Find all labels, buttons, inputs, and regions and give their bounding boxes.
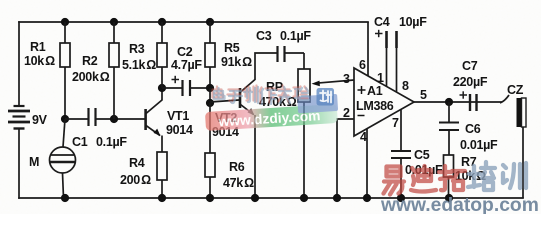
transistor VT1 9014	[146, 100, 162, 136]
svg-text:C1: C1	[72, 135, 88, 149]
node VT1 collector junction	[158, 84, 166, 92]
capacitor C1 0.1uF	[87, 108, 89, 126]
op-amp A1 LM386	[354, 68, 414, 136]
pin 7 wire	[400, 109, 402, 150]
wire VT1 collector up	[161, 88, 163, 101]
svg-text:VT1: VT1	[167, 109, 189, 123]
wire C1 left	[65, 118, 88, 120]
svg-text:8: 8	[402, 79, 409, 93]
svg-text:R1: R1	[30, 40, 46, 54]
potentiometer RP 470k	[303, 53, 305, 69]
svg-text:9V: 9V	[32, 113, 48, 127]
capacitor C4 10uF	[385, 31, 388, 48]
watermark dzdiy slogan chars	[213, 86, 310, 105]
wire mic top lead	[63, 119, 65, 147]
pin 4 wire	[366, 129, 368, 198]
wire VT2 emitter down	[254, 115, 256, 198]
microphone M	[50, 147, 76, 173]
node top rail junction R3	[158, 18, 166, 26]
svg-text:LM386: LM386	[356, 99, 394, 113]
wire left rail upper	[18, 22, 20, 105]
node mic ground junction	[61, 194, 69, 202]
node VT2 base junction	[206, 99, 214, 107]
node C1 left junction	[61, 115, 69, 123]
resistor R1	[60, 43, 70, 67]
wire R1 top lead	[64, 22, 66, 43]
wire output hook	[500, 95, 509, 103]
svg-text:M: M	[29, 155, 39, 169]
svg-text:C5: C5	[414, 148, 430, 162]
wire CZ to ground	[522, 127, 524, 198]
svg-text:91k Ω: 91k Ω	[221, 55, 252, 69]
wire left rail lower	[18, 129, 20, 198]
svg-text:2: 2	[343, 106, 350, 120]
svg-text:A1: A1	[367, 84, 383, 98]
svg-text:10k Ω: 10k Ω	[24, 54, 55, 68]
svg-text:9014: 9014	[166, 123, 193, 137]
svg-text:C2: C2	[177, 45, 193, 59]
wire VT2 collector up	[255, 53, 277, 80]
svg-text:5.1k Ω: 5.1k Ω	[122, 58, 156, 72]
wire R5-R6 divider	[209, 88, 211, 103]
capacitor C5 0.01uF	[391, 150, 411, 152]
pin 2 wire	[337, 119, 354, 198]
svg-text:R2: R2	[82, 54, 98, 68]
node top rail junction R5	[206, 18, 214, 26]
node top rail junction R1	[61, 18, 69, 26]
resistor R2	[113, 22, 115, 43]
wire mic bottom lead	[63, 173, 64, 198]
svg-text:R5: R5	[224, 41, 240, 55]
pin 1	[386, 48, 388, 86]
svg-text:R4: R4	[129, 156, 145, 170]
svg-text:47k Ω: 47k Ω	[223, 176, 254, 190]
svg-text:0.1µF: 0.1µF	[280, 29, 311, 43]
svg-text:200k Ω: 200k Ω	[72, 70, 110, 84]
svg-text:C7: C7	[462, 59, 478, 73]
svg-text:C3: C3	[256, 29, 272, 43]
svg-text:7: 7	[392, 116, 399, 130]
svg-text:C6: C6	[465, 122, 481, 136]
resistor R7	[444, 155, 454, 177]
capacitor C3 0.1uF	[276, 46, 278, 62]
battery B 9V	[8, 106, 30, 129]
svg-text:4.7µF: 4.7µF	[171, 58, 202, 72]
svg-text:C4: C4	[374, 15, 390, 29]
pin 8	[396, 48, 398, 92]
resistor R6	[209, 103, 211, 153]
svg-text:5: 5	[420, 88, 427, 102]
wire VT1 emitter down	[161, 136, 163, 153]
svg-text:3: 3	[343, 72, 350, 86]
transistor VT2 9014	[210, 100, 239, 102]
capacitor C2 4.7uF	[162, 87, 182, 89]
svg-text:0.1µF: 0.1µF	[96, 135, 127, 149]
svg-text:6: 6	[359, 58, 366, 72]
resistor R5	[209, 22, 211, 43]
wire bottom rail	[19, 197, 523, 199]
svg-text:4: 4	[360, 130, 367, 144]
svg-text:200 Ω: 200 Ω	[120, 173, 151, 187]
node output junction	[445, 98, 453, 106]
svg-text:0.01µF: 0.01µF	[460, 138, 498, 152]
watermark dzdiy logo tile	[317, 88, 335, 106]
capacitor C7 220uF	[469, 94, 471, 111]
wire R1 bottom lead	[64, 67, 66, 119]
svg-text:CZ: CZ	[507, 83, 524, 97]
wire C1 right to VT1 base	[97, 118, 145, 120]
capacitor C6 0.01uF	[448, 102, 450, 122]
node top rail junction R2	[110, 18, 118, 26]
svg-text:220µF: 220µF	[453, 75, 488, 89]
node R2 bottom junction	[110, 115, 118, 123]
resistor R4	[157, 152, 167, 180]
node C2 right junction	[206, 84, 214, 92]
wire RP wiper to pin3	[316, 80, 354, 83]
pin 6	[367, 22, 369, 76]
svg-text:R3: R3	[129, 42, 145, 56]
svg-text:10µF: 10µF	[399, 15, 427, 29]
svg-text:1: 1	[377, 71, 384, 85]
svg-text:R6: R6	[229, 160, 245, 174]
svg-text:www.edatop.com: www.edatop.com	[380, 195, 539, 214]
watermark edatop chars	[384, 162, 527, 195]
wire top rail	[19, 21, 368, 23]
pin 5 output wire	[414, 101, 502, 103]
resistor R3	[161, 22, 163, 43]
